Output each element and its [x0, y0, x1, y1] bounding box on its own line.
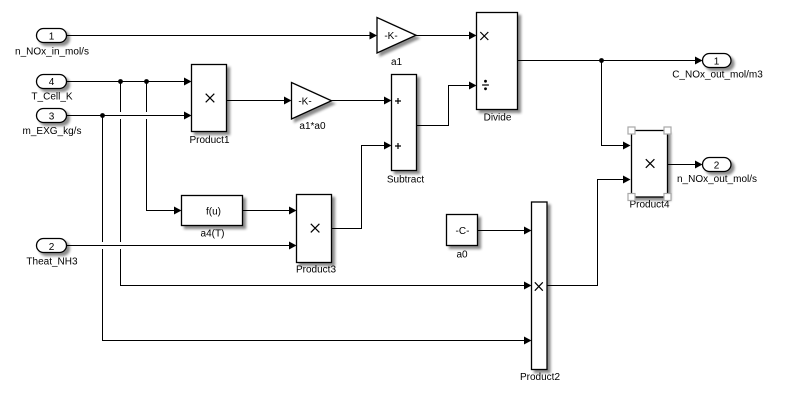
svg-text:2: 2 — [49, 242, 55, 253]
svg-text:2: 2 — [714, 160, 720, 171]
svg-text:a1*a0: a1*a0 — [299, 121, 326, 132]
svg-text:-K-: -K- — [298, 97, 311, 108]
wire Product2 to Product4 input 2 — [547, 176, 631, 286]
divide block Divide — [477, 13, 518, 124]
inport 2 Theat_NH3 — [26, 239, 78, 268]
sum block Subtract — [387, 75, 424, 186]
inport 3 m_EXG_kg/s — [23, 109, 82, 137]
svg-text:a1: a1 — [391, 57, 403, 68]
junction on m_EXG_kg/s wire at x=102 — [100, 113, 105, 118]
wire port1 to gain a1 — [67, 32, 378, 40]
gain a1*a0 — [292, 83, 332, 133]
selection handle Product4 bottom-right — [664, 194, 671, 201]
junction on T_Cell_K wire at x=146 — [144, 79, 149, 84]
wire crossing hop at (120,115) — [115, 112, 127, 119]
svg-text:m_EXG_kg/s: m_EXG_kg/s — [23, 126, 82, 137]
svg-text:a0: a0 — [456, 250, 468, 261]
svg-text:-C-: -C- — [456, 226, 470, 237]
svg-text:Product4: Product4 — [629, 200, 669, 211]
wire Product4 to outport 2 — [668, 161, 703, 169]
wire T_Cell junction to Product2 input 2 — [121, 82, 532, 290]
product block Product3 — [296, 195, 336, 276]
wire gain a1 to Divide input 1 — [416, 32, 477, 40]
svg-text:a4(T): a4(T) — [201, 229, 225, 240]
selection handle Product4 top-right — [664, 127, 671, 134]
inport 4 T_Cell_K — [31, 75, 72, 103]
junction on T_Cell_K wire at x=120.5 — [118, 79, 123, 84]
product block Product4 — [629, 131, 669, 211]
svg-text:Theat_NH3: Theat_NH3 — [26, 257, 78, 268]
svg-text:T_Cell_K: T_Cell_K — [31, 92, 72, 103]
selection handle Product4 bottom-left — [628, 194, 635, 201]
product block Product2 — [520, 202, 560, 383]
wire junction to Product4 input 1 — [602, 61, 631, 150]
wire Product3 to Subtract input 2 — [332, 142, 392, 229]
svg-text:f(u): f(u) — [206, 206, 221, 217]
svg-text:C_NOx_out_mol/m3: C_NOx_out_mol/m3 — [672, 70, 763, 81]
svg-text:1: 1 — [714, 56, 720, 67]
wire Divide to outport 1 — [518, 57, 703, 65]
svg-text:Subtract: Subtract — [387, 175, 424, 186]
wire Subtract to Divide input 2 — [417, 82, 477, 126]
wire Product1 to gain a1*a0 — [227, 97, 292, 105]
outport 1 C_NOx_out_mol/m3 — [672, 54, 763, 81]
svg-text:3: 3 — [49, 112, 55, 123]
svg-text:n_NOx_in_mol/s: n_NOx_in_mol/s — [15, 47, 89, 58]
wire gain a1*a0 to Subtract input 1 — [332, 97, 392, 105]
wire port4 to Product1 input 1 — [67, 78, 192, 86]
wire T_Cell junction to f(u) — [147, 82, 182, 215]
gain a1 — [377, 18, 416, 69]
product block Product1 — [189, 65, 229, 147]
outport 2 n_NOx_out_mol/s — [677, 158, 757, 186]
svg-text:Product2: Product2 — [520, 372, 560, 383]
svg-text:Divide: Divide — [484, 113, 512, 124]
wire port3 to Product1 input 2 — [67, 112, 192, 120]
junction on Divide output wire at x=601 — [599, 58, 604, 63]
svg-text:n_NOx_out_mol/s: n_NOx_out_mol/s — [677, 174, 757, 185]
wire f(u) to Product3 input 1 — [243, 207, 297, 215]
wire port2 to Product3 input 2 — [67, 242, 297, 250]
wire m_EXG junction to Product2 input 3 — [103, 116, 532, 345]
selection handle Product4 top-left — [628, 127, 635, 134]
constant block a0 — [447, 215, 478, 261]
svg-text:Product3: Product3 — [296, 265, 336, 276]
svg-text:1: 1 — [49, 32, 55, 43]
wire crossing hop at (146,115) — [141, 112, 153, 119]
wire crossing hop at (102,245) — [97, 242, 109, 249]
wire crossing hop at (120,245) — [115, 242, 127, 249]
fcn block a4(T) — [182, 196, 243, 240]
svg-text:-K-: -K- — [384, 31, 397, 42]
wire a0 to Product2 input 1 — [478, 227, 532, 235]
inport 1 n_NOx_in_mol/s — [15, 29, 89, 58]
svg-text:4: 4 — [49, 77, 55, 88]
svg-text:Product1: Product1 — [189, 135, 229, 146]
